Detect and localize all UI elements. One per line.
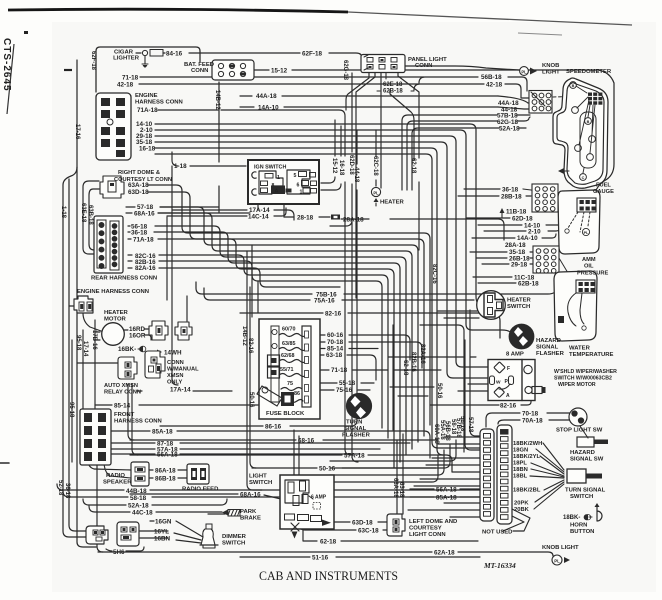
- svg-text:HEATER: HEATER: [507, 298, 532, 304]
- wire 17-18 bundle: [155, 154, 480, 448]
- label AUTO XMSN: [104, 383, 138, 389]
- label 56A-18: [436, 487, 457, 494]
- wire 15-12 bat feed to right then down: [253, 70, 614, 193]
- wire 62G-18 grid: [407, 117, 530, 190]
- svg-text:BUTTON: BUTTON: [570, 529, 594, 535]
- wire 82-16 mid: [240, 313, 500, 338]
- svg-text:F: F: [507, 366, 510, 372]
- label 5H6: [113, 549, 125, 556]
- wire 14-10 bundle: [155, 124, 478, 303]
- wire 14B-12 vertical: [218, 82, 220, 213]
- symbol 28-18 connector: [331, 215, 340, 220]
- svg-text:71A-18: 71A-18: [137, 107, 158, 114]
- label 75A-16: [314, 298, 335, 305]
- svg-text:82A-16: 82A-16: [135, 265, 156, 272]
- svg-text:62F-18: 62F-18: [90, 51, 96, 71]
- svg-text:82-16: 82-16: [325, 311, 342, 318]
- wire 56A-18 strip: [410, 488, 480, 490]
- label 14-10: [136, 121, 153, 128]
- switch hazard signal: [577, 426, 608, 447]
- svg-text:HARNESS CONN: HARNESS CONN: [135, 100, 183, 106]
- label WIPER MOTOR: [558, 382, 596, 388]
- label 87-18: [157, 441, 174, 448]
- wire 62A-18 bottom: [98, 552, 553, 556]
- label 28A-18: [343, 217, 364, 224]
- connector right dome courtesy lt conn: [100, 176, 124, 198]
- connector radio speaker: [131, 462, 149, 486]
- label 63/85: [282, 341, 296, 347]
- label AMM: [582, 257, 596, 263]
- svg-text:63C-18: 63C-18: [358, 528, 379, 535]
- svg-text:14B-12: 14B-12: [214, 90, 220, 110]
- wire panel conn drop right: [398, 73, 419, 96]
- wire strip h468: [330, 445, 450, 468]
- wire 56-18 rear: [128, 226, 406, 455]
- svg-text:A: A: [506, 393, 510, 399]
- svg-text:1-18: 1-18: [174, 163, 187, 170]
- svg-text:16-18: 16-18: [139, 146, 156, 153]
- label 70-18: [327, 339, 344, 346]
- label 70A-18: [522, 418, 543, 425]
- wire panel conn drop 62E: [390, 90, 414, 160]
- wire filler v393: [392, 325, 394, 430]
- label 62G-18: [497, 119, 519, 126]
- svg-text:PARK: PARK: [240, 509, 257, 515]
- label rotated 62C-18: [372, 156, 378, 176]
- label SPEAKER: [103, 480, 132, 486]
- svg-text:SPEAKER: SPEAKER: [103, 480, 132, 486]
- label WATER: [569, 346, 591, 352]
- wire 44C-18: [89, 506, 222, 512]
- label 35-18: [136, 139, 153, 146]
- label 75-16: [336, 387, 353, 394]
- svg-text:70-18: 70-18: [522, 411, 539, 418]
- label 28A-18: [505, 242, 526, 249]
- wire 56A-18 short: [110, 453, 360, 455]
- label 51-16: [312, 555, 329, 562]
- svg-text:5H6: 5H6: [113, 549, 125, 556]
- label rotated 56B-18: [444, 421, 450, 441]
- label 14A-10: [517, 235, 538, 242]
- label LIGHTER: [113, 56, 140, 62]
- label 16BN: [154, 536, 171, 543]
- label 14C-14: [248, 214, 269, 221]
- svg-text:82C-16: 82C-16: [431, 264, 437, 284]
- svg-text:63E-18: 63E-18: [80, 203, 86, 223]
- label SIGNAL: [536, 345, 559, 351]
- wire wiper feed 1: [462, 366, 488, 368]
- svg-text:KNOB: KNOB: [542, 63, 559, 69]
- symbol 16BK: [138, 346, 146, 352]
- svg-text:AMM: AMM: [582, 257, 596, 263]
- wire 62-18 center vertical: [418, 96, 420, 250]
- label OIL: [584, 264, 594, 270]
- svg-text:6: 6: [297, 183, 300, 189]
- wire 85-14 bottom: [95, 404, 258, 406]
- wire filler h396: [398, 395, 428, 397]
- wire 36-18 grid2: [464, 189, 531, 190]
- wire fan 18PL: [531, 463, 564, 476]
- wire 44-18 to grid: [498, 107, 530, 109]
- connector amm oil conn grid: [533, 246, 559, 273]
- wire 55-18 fuse: [311, 382, 374, 384]
- label 62/68: [281, 353, 295, 359]
- label rotated 55A-18: [439, 420, 445, 440]
- svg-text:50-16: 50-16: [319, 466, 336, 473]
- svg-text:20PK: 20PK: [514, 501, 529, 507]
- svg-text:RIGHT DOME &: RIGHT DOME &: [118, 170, 160, 176]
- svg-text:29-18: 29-18: [511, 262, 528, 269]
- label HEATER: [104, 310, 129, 316]
- svg-text:63A-18: 63A-18: [128, 182, 149, 189]
- wire 29-18 grid3: [482, 263, 534, 265]
- wire fan 20BK: [534, 484, 564, 509]
- svg-text:62F-18: 62F-18: [302, 51, 322, 58]
- svg-text:82B-16: 82B-16: [410, 352, 416, 372]
- svg-text:42-18: 42-18: [117, 82, 134, 89]
- wire 57A-18 short: [110, 448, 380, 450]
- svg-text:36-18: 36-18: [131, 230, 148, 237]
- svg-text:18PL: 18PL: [513, 461, 527, 467]
- svg-text:63-18: 63-18: [398, 482, 404, 498]
- svg-text:57-18: 57-18: [467, 417, 473, 433]
- label 70-18: [522, 411, 539, 418]
- label KNOB: [542, 63, 559, 69]
- svg-text:16OR: 16OR: [129, 333, 146, 340]
- wire 52A-18 grid: [412, 128, 526, 190]
- label RADIO FEED: [182, 487, 218, 493]
- label 2-10: [140, 127, 153, 134]
- wire left vertical 72: [71, 340, 73, 462]
- label 17A-14: [170, 387, 191, 394]
- wire strip feeds fan: [408, 437, 480, 517]
- label 60-16: [327, 332, 344, 339]
- switch heater switch: [477, 291, 506, 320]
- svg-text:SWITCH W/W00063CB2: SWITCH W/W00063CB2: [554, 376, 612, 382]
- svg-text:C: C: [582, 176, 585, 180]
- svg-text:17B-16: 17B-16: [91, 330, 97, 350]
- svg-text:RELAY CONN: RELAY CONN: [104, 390, 141, 396]
- caption CAB AND INSTRUMENTS: [259, 569, 398, 583]
- svg-text:14A-10: 14A-10: [517, 235, 538, 242]
- switch wshld wiper washer: [488, 360, 546, 401]
- wire 57-18: [126, 206, 219, 208]
- label 16-18: [139, 146, 156, 153]
- svg-text:5: 5: [294, 173, 297, 179]
- label FRONT: [114, 412, 135, 418]
- label 86-16: [265, 424, 282, 431]
- wire auto xmsn left: [77, 362, 119, 364]
- svg-text:85A-18: 85A-18: [152, 429, 173, 436]
- wire 71-18: [140, 76, 424, 78]
- wire left vertical 63: [63, 167, 91, 537]
- wire left vertical 132: [132, 384, 138, 455]
- wire 2-10 bundle: [155, 130, 472, 330]
- svg-text:71-18: 71-18: [331, 367, 348, 374]
- svg-text:CAB AND INSTRUMENTS: CAB AND INSTRUMENTS: [259, 569, 398, 583]
- wire 84-16 cigar to panel conn: [163, 53, 362, 60]
- cigar lighter symbol: [142, 50, 163, 69]
- svg-text:60A-18: 60A-18: [433, 424, 439, 444]
- wire 58-18: [63, 491, 480, 497]
- label 35-18: [509, 249, 526, 256]
- svg-text:SIGNAL SW: SIGNAL SW: [570, 457, 604, 463]
- label ENGINE: [135, 93, 158, 99]
- label SPEEDOMETER: [566, 69, 612, 75]
- svg-text:LIGHTER: LIGHTER: [113, 56, 140, 62]
- wire 68A-16 path: [158, 213, 412, 449]
- svg-text:1: 1: [277, 175, 280, 181]
- svg-text:PRESSURE: PRESSURE: [577, 271, 608, 277]
- svg-text:44A-18: 44A-18: [256, 93, 277, 100]
- wire 70-18: [486, 413, 574, 427]
- scan faint streak upper right: [518, 33, 562, 35]
- label rotated 95-18: [75, 335, 81, 351]
- label 18BK/2WH: [513, 441, 542, 447]
- label rotated 60A-18: [433, 424, 439, 444]
- svg-text:OIL: OIL: [584, 264, 594, 270]
- wire 68A-16 light switch: [130, 494, 292, 500]
- wire filler h325: [420, 325, 464, 452]
- svg-text:63A-18: 63A-18: [392, 478, 398, 498]
- label 44-18: [501, 107, 518, 114]
- label 14WH: [164, 350, 182, 357]
- label 44A-18: [498, 100, 519, 107]
- label 62B-18: [518, 281, 539, 288]
- wire panel conn drop mid: [380, 73, 382, 188]
- svg-text:PL: PL: [584, 231, 590, 235]
- svg-text:62G-18: 62G-18: [342, 60, 348, 81]
- svg-text:75-16: 75-16: [336, 387, 353, 394]
- svg-text:W'SHLD WIPER/WASHER: W'SHLD WIPER/WASHER: [554, 369, 617, 375]
- label rotated 36-18: [64, 483, 70, 499]
- label 57-18: [137, 204, 154, 211]
- wire 57A-18 long: [130, 455, 480, 472]
- svg-text:ENGINE HARNESS CONN: ENGINE HARNESS CONN: [77, 289, 149, 295]
- wire 62B-18 rear: [128, 261, 382, 428]
- label rotated 62G-18: [342, 60, 348, 81]
- label 42-18: [117, 82, 134, 89]
- svg-text:86A-18: 86A-18: [155, 468, 176, 475]
- svg-text:18GN: 18GN: [513, 448, 528, 454]
- wire 85A-18: [110, 431, 430, 458]
- wire front conn bottom vertical: [97, 463, 103, 552]
- wire 16RD stub: [124, 329, 151, 340]
- connector bat feed conn: [212, 60, 254, 80]
- gauge fuel: [558, 190, 600, 254]
- svg-text:SWITCH: SWITCH: [570, 494, 593, 500]
- svg-text:75: 75: [287, 381, 293, 387]
- connector auto xmsn relay conn: [118, 357, 137, 379]
- svg-text:15-12: 15-12: [331, 158, 337, 174]
- wire 75B-16: [196, 280, 564, 294]
- svg-text:63D-18: 63D-18: [352, 520, 373, 527]
- svg-text:28-18: 28-18: [297, 215, 314, 222]
- svg-text:6 AMP: 6 AMP: [311, 495, 327, 501]
- label 18BL: [513, 474, 528, 480]
- label 68-16: [298, 438, 315, 445]
- label rotated 82C-16: [431, 264, 437, 284]
- svg-text:1-18: 1-18: [60, 206, 66, 219]
- svg-text:GAUGE: GAUGE: [593, 189, 614, 195]
- label 1-18: [174, 163, 187, 170]
- label rotated 57-18: [467, 417, 473, 433]
- wire not used lines: [503, 509, 530, 531]
- svg-text:REAR HARNESS CONN: REAR HARNESS CONN: [91, 276, 157, 282]
- symbol 14WH arrow: [146, 350, 162, 355]
- wire 42-18 right: [414, 84, 530, 98]
- label SWITCH: [222, 541, 245, 547]
- label 2-10: [528, 229, 541, 236]
- wire fan 18GN: [536, 449, 564, 472]
- label rotated 16-18: [338, 160, 344, 176]
- label 85A-18: [152, 429, 173, 436]
- label 82-16: [500, 403, 517, 410]
- connector radio feed: [187, 464, 209, 484]
- wire 44-18 vertical: [356, 130, 358, 416]
- svg-text:A: A: [275, 189, 279, 195]
- label SWITCH: [570, 494, 593, 500]
- label 71A-18: [137, 107, 158, 114]
- wire 16BN right: [176, 540, 201, 543]
- wire 62F-18 top loop vertical: [96, 47, 200, 92]
- label 14A-10: [258, 105, 279, 112]
- wire 63A-18 path: [148, 185, 430, 425]
- label FUSE BLOCK: [266, 411, 305, 417]
- scan streak top: [8, 9, 632, 25]
- wire 75A-16: [204, 288, 474, 300]
- svg-text:51-16: 51-16: [312, 555, 329, 562]
- wire 82-16 vertical: [252, 245, 258, 317]
- label COURTESY LT CONN: [114, 177, 172, 183]
- svg-text:SWITCH: SWITCH: [249, 480, 272, 486]
- label 85-14: [114, 403, 131, 410]
- svg-text:HAZARD: HAZARD: [536, 338, 561, 344]
- label 8 AMP: [506, 352, 524, 358]
- label 68A-16: [240, 492, 261, 499]
- wire heater sw feed B: [438, 310, 477, 312]
- label 62B-18: [383, 89, 403, 95]
- wire 82-16 wiper bottom: [430, 400, 531, 405]
- label 28B-18: [501, 194, 522, 201]
- switch light switch: [280, 475, 334, 539]
- wire panel conn slant left: [356, 73, 375, 298]
- label rotated 15-12: [331, 158, 337, 174]
- svg-text:63-18: 63-18: [326, 352, 343, 359]
- label HEATER: [507, 298, 532, 304]
- label BAT. FEED: [184, 62, 214, 68]
- wire 44B-18: [57, 484, 480, 490]
- svg-text:86-16: 86-16: [265, 424, 282, 431]
- label KNOB LIGHT: [542, 545, 579, 551]
- svg-text:63D-18: 63D-18: [128, 189, 149, 196]
- label 36-18: [502, 187, 519, 194]
- label rotated 14B-12: [214, 90, 220, 110]
- svg-text:14C-14: 14C-14: [248, 214, 269, 221]
- svg-text:14WH: 14WH: [164, 350, 182, 357]
- label 42-18: [486, 82, 503, 89]
- wire 1-18: [172, 152, 246, 166]
- connector engine harness conn 2: [74, 296, 93, 313]
- wire 62E-18 label wires: [376, 73, 419, 91]
- label HAZARD: [536, 338, 561, 344]
- wire 35-18 grid3: [470, 251, 534, 253]
- svg-text:52A-18: 52A-18: [128, 503, 149, 510]
- caption MT-16334: [483, 561, 516, 570]
- svg-text:FLASHER: FLASHER: [342, 433, 371, 439]
- label TURN: [346, 420, 362, 426]
- wire fan 18BL: [530, 476, 564, 478]
- svg-text:DIMMER: DIMMER: [222, 534, 247, 540]
- connector fuel conn grid: [532, 184, 558, 212]
- svg-text:15-12: 15-12: [271, 68, 288, 75]
- svg-text:16-18: 16-18: [338, 160, 344, 176]
- wire left vertical 95: [94, 320, 96, 408]
- svg-text:95-18: 95-18: [75, 335, 81, 351]
- wire 52A-18 bottom: [83, 499, 227, 505]
- wire filler h357: [388, 356, 476, 358]
- label LIGHT CONN: [409, 532, 446, 538]
- symbol park brake: [222, 510, 240, 517]
- wire 16-18 bundle: [155, 148, 443, 455]
- connector strip A: [480, 429, 494, 521]
- wire 62D-18 vertical: [330, 73, 358, 462]
- svg-text:WATER: WATER: [569, 346, 591, 352]
- wire 75-16 fuse: [311, 389, 370, 391]
- wire 17A-14 from ign: [172, 210, 294, 220]
- wire 71A-18: [158, 110, 351, 455]
- label 82B-16: [135, 259, 156, 266]
- label 75B-16: [316, 292, 337, 299]
- label COURTESY: [409, 526, 442, 532]
- wire filler h370: [394, 369, 441, 371]
- connector engine harness conn: [96, 93, 131, 160]
- label 86B-18: [155, 476, 176, 483]
- svg-text:60/70: 60/70: [282, 327, 296, 333]
- wire 44A-18 left: [240, 95, 498, 97]
- wire 86A-18: [148, 469, 188, 471]
- label CONN: [191, 68, 208, 74]
- connector speedometer conn grid: [529, 91, 552, 114]
- svg-text:56B-18: 56B-18: [444, 421, 450, 441]
- label 55-18: [339, 380, 356, 387]
- svg-text:44-18: 44-18: [353, 167, 359, 183]
- label rotated 14B-12: [241, 326, 247, 346]
- switch turn signal: [567, 469, 602, 483]
- label 58-18: [130, 495, 147, 502]
- svg-text:XMSN: XMSN: [167, 373, 183, 379]
- wire left vertical 77: [77, 60, 96, 547]
- svg-text:TURN SIGNAL: TURN SIGNAL: [565, 488, 606, 494]
- wire 70A-18: [498, 420, 571, 424]
- label rotated 17B-16: [91, 330, 97, 350]
- label 68A-16: [134, 211, 155, 218]
- svg-text:8 AMP: 8 AMP: [506, 352, 524, 358]
- svg-text:LIGHT CONN: LIGHT CONN: [409, 532, 446, 538]
- svg-text:16BN: 16BN: [154, 536, 171, 543]
- label 18BN: [513, 467, 528, 473]
- wire 14A-10 fuel: [472, 234, 556, 238]
- label 71A-18: [133, 237, 154, 244]
- wire front conn to speaker: [88, 461, 131, 478]
- flasher turn signal: [347, 394, 372, 419]
- svg-text:LIGHT: LIGHT: [542, 70, 560, 76]
- svg-text:85A-18: 85A-18: [436, 495, 457, 502]
- label 86A-18: [155, 468, 176, 475]
- label 36-18: [131, 230, 148, 237]
- wire filler v465: [465, 340, 480, 450]
- svg-text:14B-12: 14B-12: [241, 326, 247, 346]
